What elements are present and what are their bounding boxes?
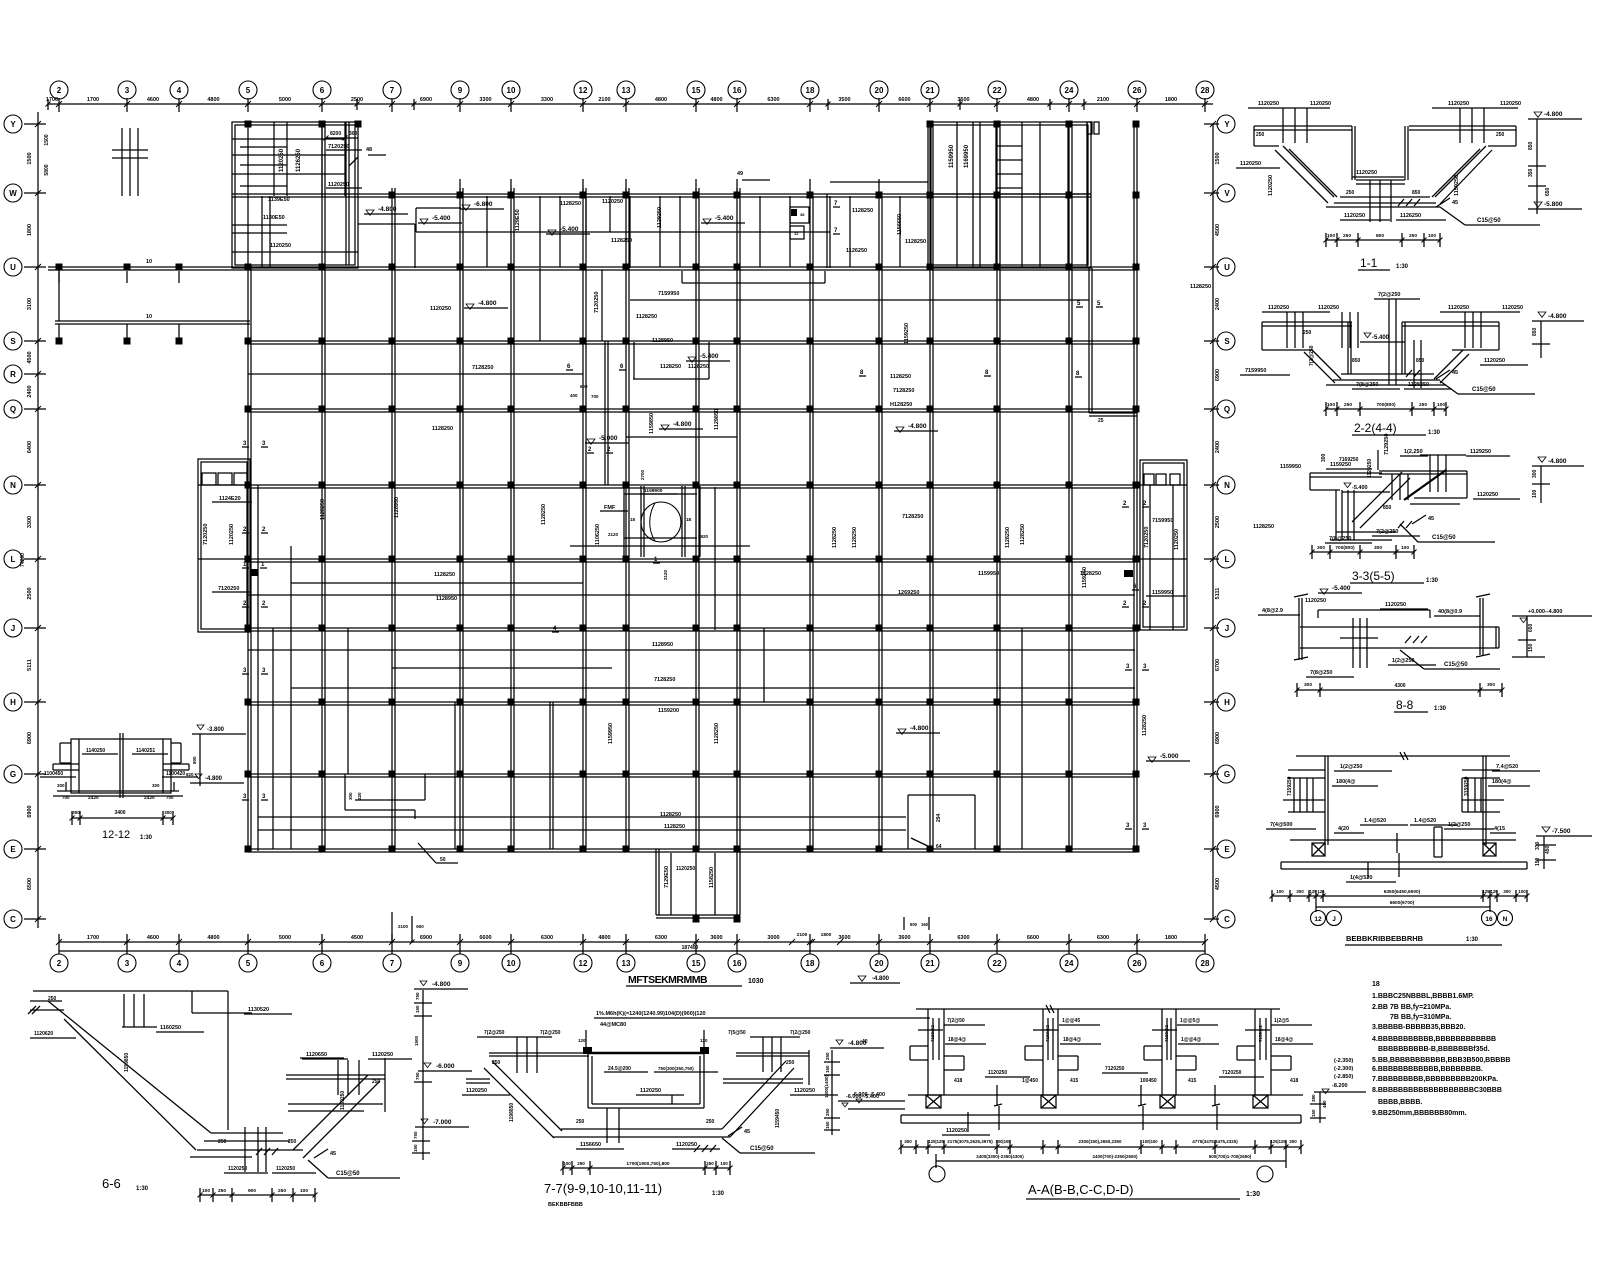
svg-text:1130E50: 1130E50 [263, 215, 285, 221]
svg-text:300: 300 [1296, 889, 1304, 894]
svg-text:18@4@: 18@4@ [948, 1037, 966, 1043]
svg-text:750: 750 [415, 992, 420, 1000]
svg-text:2500: 2500 [351, 97, 363, 103]
svg-text:1106250: 1106250 [595, 524, 601, 545]
svg-text:250: 250 [372, 1079, 381, 1085]
svg-text:J: J [1332, 916, 1336, 923]
svg-text:250: 250 [48, 996, 57, 1002]
svg-text:2100: 2100 [398, 924, 409, 929]
svg-text:300: 300 [1321, 453, 1327, 462]
svg-text:1169950: 1169950 [964, 144, 970, 168]
svg-text:125: 125 [1483, 889, 1491, 894]
svg-text:1120250: 1120250 [1477, 492, 1498, 498]
svg-text:1120250: 1120250 [228, 1166, 247, 1172]
svg-text:300: 300 [349, 131, 358, 137]
svg-text:26: 26 [1133, 86, 1142, 95]
svg-text:3300: 3300 [27, 516, 33, 528]
svg-text:-6.000--5.400: -6.000--5.400 [852, 1092, 885, 1098]
svg-text:BBBB,BBBB.: BBBB,BBBB. [1378, 1099, 1422, 1106]
svg-text:1130520: 1130520 [248, 1007, 269, 1013]
upper-right block F [928, 122, 1091, 268]
svg-text:6300: 6300 [1097, 935, 1109, 941]
svg-text:1700: 1700 [87, 97, 99, 103]
svg-text:E: E [1224, 845, 1230, 854]
svg-text:1128250: 1128250 [1020, 524, 1026, 545]
svg-text:820: 820 [186, 772, 194, 777]
svg-text:700(800): 700(800) [1335, 545, 1355, 551]
svg-text:6400: 6400 [27, 441, 33, 453]
svg-text:V: V [1224, 189, 1230, 198]
svg-text:12-12: 12-12 [102, 829, 130, 841]
svg-text:7159950: 7159950 [1152, 518, 1173, 524]
svg-text:C15@50: C15@50 [336, 1171, 360, 1177]
left protrusion block [198, 459, 250, 632]
svg-text:H: H [10, 698, 16, 707]
svg-text:-5.400: -5.400 [700, 353, 719, 360]
svg-text:4(8@2.9: 4(8@2.9 [1262, 608, 1283, 614]
svg-text:9.BB250mm,BBBBBB80mm.: 9.BB250mm,BBBBBB80mm. [1372, 1110, 1467, 1117]
svg-text:100: 100 [1532, 489, 1538, 498]
svg-text:4800: 4800 [710, 97, 722, 103]
svg-text:850: 850 [1352, 358, 1361, 364]
svg-text:(-2.350): (-2.350) [1334, 1058, 1353, 1064]
svg-text:BEBBKRIBBEBBRHB: BEBBKRIBBEBBRHB [1346, 934, 1424, 943]
svg-text:250: 250 [1303, 330, 1312, 336]
svg-text:650: 650 [1545, 187, 1551, 196]
svg-text:1120250: 1120250 [1502, 305, 1523, 311]
svg-text:1700: 1700 [87, 935, 99, 941]
svg-text:C15@50: C15@50 [1444, 662, 1468, 668]
svg-text:-4.800: -4.800 [908, 423, 927, 430]
left dimension line [37, 112, 39, 928]
svg-text:1800: 1800 [821, 932, 832, 938]
svg-text:600: 600 [416, 924, 424, 929]
svg-text:1120250: 1120250 [1268, 305, 1289, 311]
svg-text:4800: 4800 [598, 935, 610, 941]
svg-text:1128250: 1128250 [320, 499, 326, 520]
svg-text:20: 20 [875, 86, 884, 95]
svg-text:250: 250 [825, 1108, 830, 1116]
S arm [55, 320, 250, 322]
svg-text:BBBBBBBBBB-B,BBBBBBBf35d.: BBBBBBBBBB-B,BBBBBBBf35d. [1378, 1046, 1490, 1053]
svg-text:150: 150 [1311, 1109, 1316, 1117]
svg-text:R: R [10, 370, 16, 379]
svg-text:16: 16 [1485, 916, 1493, 923]
svg-text:-8.200: -8.200 [1332, 1083, 1348, 1089]
svg-text:6: 6 [320, 86, 325, 95]
svg-text:-6.000: -6.000 [436, 1063, 455, 1070]
svg-text:850: 850 [1412, 190, 1421, 196]
svg-text:-3.800: -3.800 [207, 727, 225, 733]
svg-text:1:30: 1:30 [1428, 430, 1441, 436]
svg-text:2.BB 7B BB,fy=210MPa.: 2.BB 7B BB,fy=210MPa. [1372, 1004, 1451, 1011]
W axis strip [232, 193, 1091, 195]
svg-text:N: N [10, 481, 16, 490]
svg-text:1120250: 1120250 [466, 1088, 487, 1094]
svg-text:C: C [1224, 915, 1230, 924]
svg-text:7(8@250: 7(8@250 [1356, 382, 1379, 388]
svg-text:250: 250 [706, 1119, 715, 1125]
svg-text:2: 2 [57, 86, 62, 95]
svg-text:4300: 4300 [1394, 683, 1405, 689]
svg-text:418: 418 [954, 1078, 963, 1084]
svg-text:2700: 2700 [640, 469, 645, 480]
svg-text:300: 300 [57, 783, 65, 788]
svg-text:20: 20 [875, 959, 884, 968]
svg-text:5111: 5111 [27, 659, 33, 671]
svg-text:6900: 6900 [1215, 805, 1221, 817]
svg-text:45: 45 [1452, 200, 1458, 206]
svg-text:-4.800: -4.800 [673, 421, 692, 428]
svg-text:1160250: 1160250 [160, 1025, 181, 1031]
svg-text:1.4@520: 1.4@520 [1364, 818, 1386, 824]
svg-text:100: 100 [1401, 545, 1409, 551]
svg-text:C15@50: C15@50 [1477, 218, 1501, 224]
svg-text:1120250: 1120250 [279, 148, 285, 172]
svg-text:1500: 1500 [44, 134, 50, 145]
svg-text:Y: Y [1224, 120, 1230, 129]
svg-text:1128250: 1128250 [1408, 382, 1429, 388]
svg-text:BEKBBFBBB: BEKBBFBBB [548, 1202, 583, 1208]
svg-text:24.5@200: 24.5@200 [608, 1066, 631, 1072]
svg-text:4800: 4800 [1027, 97, 1039, 103]
svg-text:1@@45: 1@@45 [1062, 1018, 1080, 1024]
svg-text:13: 13 [622, 959, 631, 968]
column squares [245, 121, 252, 128]
svg-text:1120250: 1120250 [430, 306, 451, 312]
svg-text:FMF: FMF [604, 505, 616, 511]
svg-text:1(4@520: 1(4@520 [1350, 875, 1373, 881]
svg-text:3400: 3400 [114, 810, 125, 816]
svg-text:1(2@250: 1(2@250 [1340, 764, 1363, 770]
svg-text:-4.800: -4.800 [1548, 458, 1567, 465]
svg-text:3000: 3000 [767, 935, 779, 941]
svg-text:40: 40 [862, 1039, 868, 1045]
svg-text:3-3(5-5): 3-3(5-5) [1352, 569, 1395, 583]
svg-text:-4.800: -4.800 [1548, 313, 1567, 320]
svg-text:(-2.300): (-2.300) [1334, 1066, 1353, 1072]
svg-text:7.4@520: 7.4@520 [1496, 764, 1518, 770]
svg-text:400: 400 [1322, 1100, 1327, 1108]
svg-text:850: 850 [1528, 141, 1534, 150]
svg-text:1128950: 1128950 [652, 642, 673, 648]
svg-text:7159@2: 7159@2 [1164, 1025, 1169, 1042]
svg-text:18@4@: 18@4@ [1063, 1037, 1081, 1043]
svg-text:300: 300 [1304, 682, 1312, 688]
svg-text:J: J [11, 624, 15, 633]
svg-text:1120250: 1120250 [372, 1052, 393, 1058]
svg-text:125|125: 125|125 [1270, 1139, 1286, 1144]
svg-text:U: U [1224, 263, 1230, 272]
svg-text:1120250: 1120250 [1268, 175, 1274, 196]
svg-text:1:30: 1:30 [1434, 706, 1447, 712]
svg-text:1120250: 1120250 [1500, 101, 1521, 107]
svg-text:7120250: 7120250 [218, 586, 239, 592]
svg-text:1120250: 1120250 [946, 1128, 967, 1134]
svg-text:4: 4 [177, 86, 182, 95]
svg-text:5: 5 [246, 86, 251, 95]
svg-text:1120250: 1120250 [676, 1142, 697, 1148]
svg-text:7.BBBBBBBBB,BBBBBBBBB200KPa.: 7.BBBBBBBBB,BBBBBBBBB200KPa. [1372, 1076, 1498, 1083]
svg-text:2100: 2100 [1097, 97, 1109, 103]
svg-text:7120250: 7120250 [203, 524, 209, 545]
detail section 8-8 [1298, 598, 1300, 660]
svg-text:1120250: 1120250 [1448, 101, 1469, 107]
svg-text:6300: 6300 [655, 935, 667, 941]
svg-text:7159950: 7159950 [658, 291, 679, 297]
svg-text:1129E50: 1129E50 [515, 209, 521, 231]
svg-text:1700(1900,750),800: 1700(1900,750),800 [626, 1161, 670, 1167]
svg-text:24: 24 [1065, 86, 1074, 95]
svg-text:7120250: 7120250 [328, 144, 349, 150]
svg-text:7169250: 7169250 [1339, 457, 1359, 463]
svg-text:1126250: 1126250 [1400, 213, 1421, 219]
svg-text:415: 415 [1188, 1078, 1197, 1084]
svg-text:C15@50: C15@50 [1472, 387, 1496, 393]
svg-text:1(2,250: 1(2,250 [1404, 449, 1423, 455]
svg-text:5: 5 [246, 959, 251, 968]
svg-text:7(2@250: 7(2@250 [540, 1030, 561, 1036]
svg-text:2175(3075,2625,3975): 2175(3075,2625,3975) [947, 1139, 993, 1144]
svg-text:100|100: 100|100 [995, 1139, 1011, 1144]
svg-text:1700: 1700 [46, 97, 58, 103]
svg-text:21: 21 [926, 959, 935, 968]
svg-text:4800: 4800 [207, 97, 219, 103]
svg-text:1128250: 1128250 [541, 504, 547, 525]
svg-text:7159250: 7159250 [1287, 776, 1293, 796]
svg-text:4500: 4500 [1215, 224, 1221, 236]
svg-text:300: 300 [1532, 469, 1538, 478]
svg-text:1120250: 1120250 [270, 243, 291, 249]
svg-text:1.4@520: 1.4@520 [1414, 818, 1436, 824]
svg-text:300: 300 [1317, 545, 1325, 551]
svg-text:7129E50: 7129E50 [664, 866, 670, 888]
svg-text:25: 25 [1098, 418, 1104, 424]
svg-text:1:30: 1:30 [712, 1191, 725, 1197]
svg-text:Q: Q [1224, 405, 1230, 414]
svg-text:2120: 2120 [663, 569, 668, 580]
svg-text:1500: 1500 [414, 1035, 419, 1046]
svg-text:1120250: 1120250 [1174, 529, 1180, 550]
svg-text:300: 300 [904, 1139, 912, 1144]
svg-text:1120250: 1120250 [602, 199, 623, 205]
svg-text:125: 125 [1318, 889, 1326, 894]
svg-text:150: 150 [415, 1005, 420, 1013]
svg-text:1128250: 1128250 [432, 426, 453, 432]
svg-text:8.BBBBBBBBBBBBBBBBBBBC30BBB: 8.BBBBBBBBBBBBBBBBBBBC30BBB [1372, 1087, 1502, 1094]
svg-text:4(20: 4(20 [1338, 826, 1349, 832]
svg-text:W: W [9, 189, 17, 198]
svg-text:12: 12 [579, 959, 588, 968]
svg-text:45: 45 [330, 1151, 336, 1157]
svg-text:5000: 5000 [279, 97, 291, 103]
svg-text:1120250: 1120250 [1318, 305, 1339, 311]
svg-text:1120250: 1120250 [1344, 213, 1365, 219]
svg-text:-5.400: -5.400 [1332, 585, 1351, 592]
svg-text:10: 10 [507, 86, 516, 95]
svg-text:1120250: 1120250 [794, 1088, 815, 1094]
svg-text:600: 600 [910, 922, 918, 927]
svg-text:1E: 1E [686, 517, 692, 522]
svg-text:7(4@500: 7(4@500 [1270, 822, 1293, 828]
svg-text:L: L [11, 555, 16, 564]
svg-text:6600: 6600 [1027, 935, 1039, 941]
svg-text:100: 100 [563, 1161, 571, 1166]
svg-text:1500: 1500 [1215, 152, 1221, 164]
svg-text:1:30: 1:30 [136, 1186, 149, 1192]
body left edge [247, 268, 249, 851]
svg-text:3300: 3300 [479, 97, 491, 103]
svg-text:9: 9 [458, 959, 463, 968]
svg-text:12: 12 [794, 231, 799, 236]
svg-text:150: 150 [1535, 857, 1541, 866]
svg-text:300: 300 [1374, 545, 1382, 551]
svg-text:750: 750 [415, 1072, 420, 1080]
svg-text:1120250: 1120250 [1310, 101, 1331, 107]
svg-text:-6.800: -6.800 [474, 201, 493, 208]
svg-text:4600: 4600 [147, 97, 159, 103]
svg-text:1159900: 1159900 [644, 488, 663, 494]
svg-text:1200(1400): 1200(1400) [824, 1074, 829, 1098]
svg-text:1120250: 1120250 [328, 182, 349, 188]
svg-text:6600: 6600 [898, 97, 910, 103]
svg-text:2120: 2120 [608, 532, 619, 537]
svg-text:1120650: 1120650 [306, 1052, 327, 1058]
svg-text:1128250: 1128250 [714, 723, 720, 744]
svg-text:160: 160 [921, 922, 929, 927]
svg-text:7159@2: 7159@2 [1045, 1025, 1050, 1042]
svg-text:100450: 100450 [1140, 1078, 1157, 1084]
svg-text:64: 64 [936, 844, 942, 850]
svg-text:1120250: 1120250 [1385, 602, 1406, 608]
U axis line + left arm [232, 266, 1137, 268]
svg-text:1500: 1500 [27, 152, 33, 164]
svg-text:10: 10 [146, 259, 152, 265]
svg-text:350: 350 [1528, 168, 1534, 177]
bottom ramp protrusion [655, 849, 657, 915]
svg-text:5800: 5800 [44, 164, 50, 175]
svg-text:250: 250 [1256, 132, 1265, 138]
svg-text:7(2@250: 7(2@250 [1309, 345, 1315, 366]
svg-text:150: 150 [1528, 643, 1534, 652]
svg-text:6300: 6300 [541, 935, 553, 941]
svg-text:S: S [10, 337, 16, 346]
svg-text:2400: 2400 [1215, 441, 1221, 453]
svg-text:1120250: 1120250 [1305, 598, 1326, 604]
svg-text:7159@2: 7159@2 [1258, 1025, 1263, 1042]
svg-text:6600(6700): 6600(6700) [1390, 900, 1415, 906]
svg-text:3: 3 [125, 86, 130, 95]
svg-text:1120250: 1120250 [1258, 101, 1279, 107]
bottom edge [248, 848, 1137, 850]
svg-text:12: 12 [579, 86, 588, 95]
svg-text:7128250: 7128250 [902, 514, 923, 520]
svg-text:-7.000: -7.000 [433, 1119, 452, 1126]
svg-text:250: 250 [218, 1188, 226, 1194]
right protrusion block [1140, 460, 1187, 630]
svg-text:1159250: 1159250 [1082, 567, 1088, 588]
svg-text:150: 150 [825, 1121, 830, 1129]
svg-text:7(2@250: 7(2@250 [1378, 292, 1401, 298]
svg-text:125|125: 125|125 [928, 1139, 944, 1144]
svg-text:16: 16 [733, 86, 742, 95]
svg-text:45: 45 [1452, 370, 1458, 376]
svg-text:1@@5@: 1@@5@ [1180, 1018, 1200, 1024]
svg-text:6350(6450,6500): 6350(6450,6500) [1384, 889, 1421, 895]
svg-text:850: 850 [1532, 327, 1538, 336]
svg-text:100: 100 [1428, 233, 1436, 239]
svg-text:6900: 6900 [27, 805, 33, 817]
svg-text:1120620: 1120620 [34, 1031, 53, 1037]
svg-text:38: 38 [800, 212, 805, 217]
svg-text:450: 450 [1545, 845, 1551, 854]
svg-text:48: 48 [366, 147, 372, 153]
svg-text:3600: 3600 [710, 935, 722, 941]
svg-text:180(4@: 180(4@ [1492, 779, 1512, 785]
svg-text:N: N [1503, 916, 1508, 923]
svg-text:3300: 3300 [541, 97, 553, 103]
svg-text:-4.800: -4.800 [378, 206, 397, 213]
svg-text:+0.000--4.800: +0.000--4.800 [1528, 609, 1562, 615]
svg-text:4775(3475,3475,2325): 4775(3475,3475,2325) [1192, 1139, 1238, 1144]
svg-text:18: 18 [630, 517, 636, 522]
svg-text:6900: 6900 [1215, 732, 1221, 744]
svg-text:1159950: 1159950 [978, 571, 999, 577]
svg-text:7129250: 7129250 [1384, 434, 1390, 455]
svg-text:9: 9 [458, 86, 463, 95]
svg-text:2400: 2400 [27, 385, 33, 397]
svg-text:H: H [1224, 698, 1230, 707]
svg-text:700(800): 700(800) [1376, 402, 1396, 408]
svg-text:1128250: 1128250 [636, 314, 657, 320]
svg-text:1128250: 1128250 [832, 527, 838, 548]
svg-text:5000: 5000 [279, 935, 291, 941]
svg-text:2400: 2400 [1215, 298, 1221, 310]
svg-text:7159950: 7159950 [1245, 368, 1266, 374]
block A internals [273, 122, 275, 196]
svg-text:1@@4@: 1@@4@ [1181, 1037, 1201, 1043]
svg-text:1124E20: 1124E20 [219, 496, 241, 502]
svg-text:18: 18 [806, 959, 815, 968]
svg-text:4800: 4800 [207, 935, 219, 941]
svg-text:2400(700)-2350(2650): 2400(700)-2350(2650) [1092, 1154, 1138, 1159]
svg-text:3.BBBBB-BBBBB35,BBB20.: 3.BBBBB-BBBBB35,BBB20. [1372, 1024, 1465, 1031]
svg-text:Y: Y [10, 120, 16, 129]
svg-text:6900: 6900 [420, 97, 432, 103]
svg-text:7(2@50: 7(2@50 [947, 1018, 965, 1024]
svg-text:750(300(350,750): 750(300(350,750) [658, 1066, 694, 1071]
svg-text:6600: 6600 [479, 935, 491, 941]
svg-text:250: 250 [1419, 402, 1427, 408]
svg-text:7120250: 7120250 [1105, 1066, 1125, 1072]
bottom axis bubbles [50, 954, 68, 972]
svg-text:1:30: 1:30 [1466, 937, 1479, 943]
svg-text:150: 150 [825, 1065, 830, 1073]
plan: upper-left block A outline [232, 122, 358, 268]
svg-text:1126250: 1126250 [296, 148, 302, 172]
svg-text:1159200: 1159200 [658, 708, 679, 714]
svg-text:800: 800 [192, 756, 197, 764]
svg-text:1159950: 1159950 [1280, 464, 1301, 470]
svg-text:1129250: 1129250 [1470, 449, 1491, 455]
top axis bubbles [50, 81, 68, 99]
svg-text:1139E50: 1139E50 [268, 197, 290, 203]
rebar cluster left of block A [121, 128, 123, 196]
svg-text:100: 100 [1437, 402, 1445, 408]
svg-text:2100: 2100 [598, 97, 610, 103]
svg-text:220: 220 [357, 792, 362, 800]
svg-text:-4.800: -4.800 [872, 976, 890, 982]
